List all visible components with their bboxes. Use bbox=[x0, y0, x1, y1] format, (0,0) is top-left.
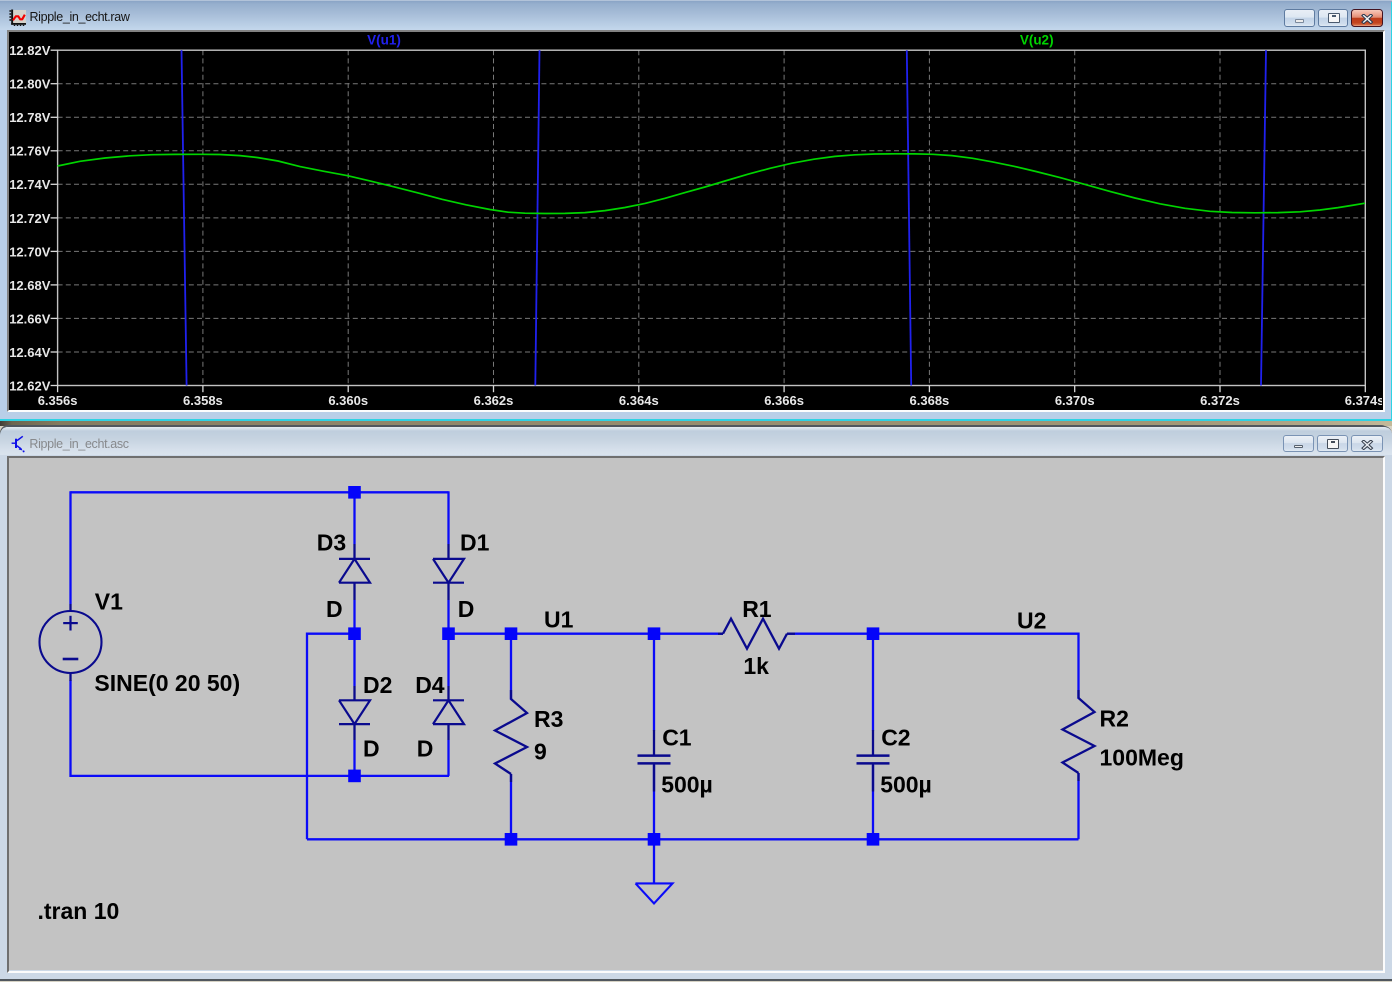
diode D4 bbox=[447, 686, 449, 700]
svg-text:C1: C1 bbox=[662, 725, 692, 751]
resistor R3 body bbox=[510, 690, 512, 699]
node: R3 bottom bbox=[505, 833, 518, 846]
svg-text:12.62V: 12.62V bbox=[9, 378, 51, 393]
svg-text:500µ: 500µ bbox=[661, 772, 713, 798]
bottom dark edge bbox=[0, 979, 1392, 981]
svg-text:U1: U1 bbox=[544, 607, 574, 633]
close button bbox=[1351, 9, 1383, 27]
svg-text:12.68V: 12.68V bbox=[9, 278, 51, 293]
minimize button bbox=[1283, 435, 1314, 453]
svg-text:D3: D3 bbox=[317, 530, 346, 556]
node: C2 top bbox=[867, 628, 880, 641]
desktop strip between windows bbox=[0, 421, 1392, 426]
svg-text:R2: R2 bbox=[1100, 706, 1129, 732]
wire: D1 bottom to mid node bbox=[447, 600, 449, 634]
cyan edge lines bbox=[0, 419, 1392, 421]
svg-text:6.358s: 6.358s bbox=[183, 393, 223, 408]
svg-text:.tran 10: .tran 10 bbox=[38, 898, 120, 924]
svg-text:500µ: 500µ bbox=[880, 772, 932, 798]
svg-text:12.70V: 12.70V bbox=[9, 244, 51, 259]
svg-text:12.66V: 12.66V bbox=[9, 311, 51, 326]
svg-text:12.78V: 12.78V bbox=[9, 110, 51, 125]
svg-text:1k: 1k bbox=[743, 653, 769, 679]
trace V(u2): ripple curve bbox=[58, 154, 1365, 214]
node: C1 top bbox=[648, 628, 661, 641]
svg-text:U2: U2 bbox=[1017, 608, 1046, 634]
title text bbox=[29, 437, 128, 451]
plot client area with sunken border bbox=[7, 30, 1385, 412]
svg-text:D: D bbox=[363, 736, 380, 762]
svg-text:12.64V: 12.64V bbox=[9, 345, 51, 360]
node: top rail junction bbox=[348, 486, 361, 499]
wire: C1 stubs bbox=[653, 634, 655, 731]
diode D1 bbox=[447, 544, 449, 559]
title icon (schematic) bbox=[11, 435, 25, 453]
svg-text:6.368s: 6.368s bbox=[910, 393, 950, 408]
wire: D2 vertical bbox=[353, 634, 355, 686]
node: C2 bottom bbox=[867, 833, 880, 846]
svg-text:6.370s: 6.370s bbox=[1055, 393, 1095, 408]
svg-text:D: D bbox=[326, 596, 343, 622]
window: waveform viewer Ripple_in_echt.raw bbox=[0, 0, 1392, 421]
resistor R1 body bbox=[723, 619, 787, 649]
plot grid bbox=[58, 50, 1366, 385]
wire: V1 top bbox=[69, 492, 71, 605]
restore button bbox=[1318, 9, 1349, 27]
capacitor C1 body bbox=[653, 730, 655, 756]
wire: mid node to left drop bbox=[307, 634, 355, 840]
title bar (inactive) bbox=[0, 427, 1392, 456]
diode D3 bbox=[353, 544, 355, 559]
schematic client area bbox=[7, 456, 1385, 973]
node: C1 bottom / ground bbox=[648, 833, 661, 846]
svg-text:D1: D1 bbox=[460, 530, 490, 556]
svg-text:D2: D2 bbox=[363, 672, 392, 698]
voltage source V1 bbox=[40, 611, 102, 673]
wire: bottom rail bbox=[307, 839, 1079, 841]
axis ticks bbox=[51, 50, 1366, 392]
svg-text:6.372s: 6.372s bbox=[1200, 393, 1240, 408]
svg-text:9: 9 bbox=[534, 739, 547, 765]
title icon (waveform) bbox=[9, 9, 26, 26]
svg-text:12.76V: 12.76V bbox=[9, 144, 51, 159]
svg-text:D: D bbox=[458, 596, 475, 622]
svg-text:V(u1): V(u1) bbox=[367, 33, 401, 48]
wire: ground stub bbox=[653, 840, 655, 884]
wire: R1 right to U2 corner, down to R2 bbox=[787, 634, 1079, 699]
svg-text:D: D bbox=[417, 736, 434, 762]
y axis labels bbox=[9, 43, 51, 393]
wire: top rail bbox=[71, 492, 449, 494]
svg-text:V1: V1 bbox=[95, 589, 123, 615]
x axis labels bbox=[38, 393, 1385, 408]
svg-text:C2: C2 bbox=[881, 725, 910, 751]
svg-text:12.82V: 12.82V bbox=[9, 43, 51, 58]
plot axes frame bbox=[58, 50, 1366, 385]
wire: D4 vertical bbox=[447, 634, 449, 686]
dark rounded corner edges bbox=[0, 425, 1389, 436]
wire: R3 stubs bbox=[510, 634, 512, 700]
ground symbol bbox=[636, 884, 673, 904]
wire: D3 top bbox=[353, 493, 355, 545]
node: D2 bottom bbox=[348, 770, 361, 783]
svg-text:D4: D4 bbox=[415, 672, 445, 698]
svg-text:R1: R1 bbox=[742, 596, 772, 622]
svg-text:6.374s: 6.374s bbox=[1345, 393, 1382, 408]
svg-text:12.72V: 12.72V bbox=[9, 211, 51, 226]
svg-text:6.356s: 6.356s bbox=[38, 393, 78, 408]
trace V(u1): near-vertical lines bbox=[182, 50, 1267, 385]
svg-text:SINE(0 20 50): SINE(0 20 50) bbox=[94, 670, 240, 696]
title text bbox=[30, 10, 130, 24]
minimize button bbox=[1284, 9, 1315, 27]
window: schematic Ripple_in_echt.asc bbox=[0, 426, 1392, 981]
wire: R2 bottom bbox=[1077, 773, 1079, 839]
wire: mid rail U1 bbox=[449, 633, 724, 635]
svg-text:6.362s: 6.362s bbox=[474, 393, 514, 408]
svg-text:12.80V: 12.80V bbox=[9, 77, 51, 92]
node: R3 top bbox=[505, 628, 518, 641]
svg-text:6.364s: 6.364s bbox=[619, 393, 659, 408]
wire: D3 bottom to mid node bbox=[353, 600, 355, 634]
capacitor C2 body bbox=[872, 730, 874, 756]
svg-text:6.366s: 6.366s bbox=[764, 393, 804, 408]
title bar (active) bbox=[0, 0, 1392, 30]
svg-text:100Meg: 100Meg bbox=[1100, 745, 1184, 771]
node: D1/D4 mid (U1 net) bbox=[442, 628, 455, 641]
wire: C2 stubs bbox=[872, 634, 874, 731]
diode D2 bbox=[353, 686, 355, 700]
wire: V1 bottom to lower rail bbox=[71, 680, 450, 776]
node: D3/D2 mid bbox=[348, 628, 361, 641]
svg-text:V(u2): V(u2) bbox=[1020, 33, 1054, 48]
wire: D1 top bbox=[447, 492, 449, 545]
close button bbox=[1351, 435, 1383, 453]
svg-text:R3: R3 bbox=[534, 706, 563, 732]
resistor R2 body bbox=[1077, 690, 1079, 698]
svg-text:12.74V: 12.74V bbox=[9, 177, 51, 192]
restore button bbox=[1317, 435, 1348, 453]
svg-text:6.360s: 6.360s bbox=[328, 393, 368, 408]
